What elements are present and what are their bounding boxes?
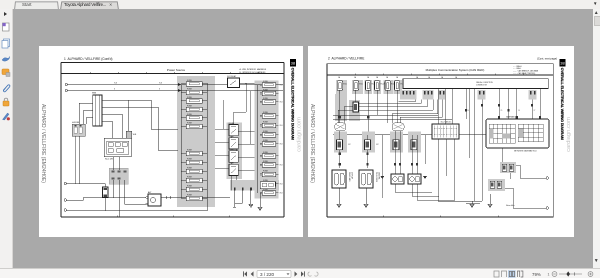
svg-text:OVERALL ELECTRICAL WIRING DIAG: OVERALL ELECTRICAL WIRING DIAGRAM	[291, 68, 295, 140]
gateway feeds	[465, 89, 467, 120]
svg-text:TELEVISION: TELEVISION	[375, 172, 377, 183]
junction block shading C	[255, 81, 279, 199]
wires loops to components	[340, 131, 425, 198]
svg-text:38: 38	[291, 61, 296, 66]
twisted pair T1	[335, 123, 346, 131]
sub junction J2	[353, 102, 359, 112]
svg-text:25: 25	[501, 110, 503, 112]
power source band	[61, 73, 284, 75]
ECU connector U6	[395, 81, 400, 91]
status bar	[0, 268, 600, 278]
bus connector pad M4	[529, 90, 537, 100]
svg-text:W-B: W-B	[280, 184, 283, 186]
svg-text:ECU: ECU	[343, 84, 347, 86]
svg-text:79%: 79%	[532, 272, 541, 277]
svg-text:FUSE: FUSE	[187, 114, 193, 116]
CAN main bus wire H	[333, 114, 438, 116]
svg-text:—— : CAN MAIN (TWISTED): —— : CAN MAIN (TWISTED)	[513, 72, 536, 75]
gateway pin grid 2	[518, 124, 543, 142]
svg-text:W-B: W-B	[280, 125, 283, 127]
svg-text:No.2 CAN J/C: No.2 CAN J/C	[441, 121, 452, 124]
junction connector J1 W/B	[93, 95, 102, 126]
relay R2	[229, 125, 238, 136]
ground G1	[249, 204, 253, 208]
fuse F1	[186, 82, 202, 87]
fuse C7	[262, 142, 276, 147]
fuse F11	[186, 187, 202, 192]
svg-text:cardiagn.com: cardiagn.com	[566, 117, 572, 152]
ECU connector U3	[366, 81, 371, 91]
svg-text:2 ALPHARD / VELLFIRE: 2 ALPHARD / VELLFIRE	[328, 57, 364, 61]
svg-text:24: 24	[467, 110, 469, 112]
ground W4	[488, 194, 492, 208]
svg-text:Multiplex Communication System: Multiplex Communication System (CAN RHD)	[426, 68, 485, 72]
relay R1 (shaded)	[72, 124, 85, 136]
svg-text:FUSE: FUSE	[187, 80, 193, 82]
svg-text:RELAY: RELAY	[229, 162, 235, 165]
wire labels	[114, 83, 162, 91]
svg-text:B: B	[114, 89, 115, 91]
ECU connector U5	[385, 81, 390, 91]
svg-text:FUSE: FUSE	[187, 122, 193, 124]
bus connector pad M2	[438, 90, 446, 100]
relay R5	[229, 164, 238, 175]
svg-text:W-B: W-B	[280, 144, 283, 146]
wire number labels	[338, 76, 458, 79]
svg-text:FUSE: FUSE	[187, 158, 193, 160]
svg-text:IG1 RELAY: IG1 RELAY	[227, 75, 237, 78]
svg-text:ALPHARD / VELLFIRE (EM24H0E): ALPHARD / VELLFIRE (EM24H0E)	[40, 104, 46, 183]
tab document (active)	[60, 1, 119, 10]
pin table feeds	[437, 89, 439, 125]
svg-text:FUSE: FUSE	[263, 98, 269, 100]
J/C connector JB	[365, 140, 371, 150]
fuse F12	[186, 196, 202, 201]
fuse C2	[262, 91, 276, 96]
wire gateway down	[502, 148, 504, 162]
J1 pins	[88, 100, 107, 121]
camera connector pad	[500, 162, 516, 173]
svg-text:26: 26	[518, 110, 520, 112]
sidebar panel	[0, 9, 13, 268]
component return wires	[395, 184, 454, 200]
svg-text:FUSE: FUSE	[263, 81, 269, 83]
svg-text:1: 1	[548, 272, 550, 276]
fuse block No.2 J/B	[104, 138, 131, 157]
CAN main bus wire L	[333, 118, 452, 120]
connector A1	[65, 83, 67, 85]
bus pins	[403, 91, 536, 94]
fuse C11	[262, 182, 276, 187]
svg-text:DISPLAY: DISPLAY	[351, 172, 354, 180]
svg-text:W-B: W-B	[280, 165, 283, 167]
svg-text:5A: 5A	[354, 76, 357, 79]
display unit M2	[359, 170, 373, 188]
svg-text:FUSE: FUSE	[263, 170, 269, 172]
grid ticks bottom	[383, 216, 498, 217]
svg-text:cardiagn.com: cardiagn.com	[297, 117, 303, 152]
svg-text:W-B: W-B	[159, 83, 162, 85]
svg-text:FUSE: FUSE	[263, 131, 269, 133]
connector C3	[64, 209, 66, 211]
svg-text:RELAY: RELAY	[229, 122, 235, 125]
svg-text:FUSE: FUSE	[263, 189, 269, 191]
sensor M3	[391, 174, 404, 184]
relay block wires	[215, 112, 255, 191]
svg-text:FUSE: FUSE	[187, 88, 193, 90]
svg-text:ALPHARD / VELLFIRE (EM24H0E): ALPHARD / VELLFIRE (EM24H0E)	[309, 104, 315, 183]
ECU connector U1	[337, 81, 342, 91]
svg-text:CAN No.1 JUNCTION: CAN No.1 JUNCTION	[476, 81, 493, 84]
svg-text:FUSE: FUSE	[187, 176, 193, 178]
wire ground drops	[233, 191, 251, 208]
band line	[327, 74, 553, 76]
svg-text:5A: 5A	[396, 76, 399, 79]
connector shading around J2	[349, 100, 360, 121]
CAN junction bus box	[403, 79, 548, 89]
svg-text:FUSE: FUSE	[187, 97, 193, 99]
wire arrow marks	[178, 83, 181, 86]
strip A right bus	[206, 83, 208, 198]
fuse F9	[186, 169, 202, 174]
nested elbow wires from bus J/B	[399, 100, 416, 102]
gateway ECU box	[486, 119, 549, 148]
relay R3	[229, 138, 238, 149]
wire fuse block down	[112, 157, 114, 171]
ECU connector pad 2	[352, 80, 363, 94]
svg-text:CONNECTOR: CONNECTOR	[476, 84, 488, 86]
ECU connector pad 5	[384, 80, 394, 94]
fuse C4	[262, 114, 276, 119]
fuse C1	[262, 83, 276, 88]
radio unit M1	[332, 170, 346, 188]
svg-text:FUSE: FUSE	[187, 105, 193, 107]
svg-text:A : W/B, INTERIOR HARNESS: A : W/B, INTERIOR HARNESS	[240, 68, 267, 71]
svg-text:B : INTERIOR, E/G HARNESS: B : INTERIOR, E/G HARNESS	[240, 71, 267, 74]
fuse F2	[186, 90, 202, 95]
bottom connector pins	[234, 188, 252, 191]
svg-text:FUSE: FUSE	[187, 149, 193, 151]
camera connector pad 2	[488, 179, 505, 191]
wire battery feed B	[68, 90, 284, 92]
svg-text:5A: 5A	[386, 76, 389, 79]
svg-text:W-B: W-B	[280, 85, 283, 87]
fuse F3	[186, 99, 202, 104]
svg-text:RELAY: RELAY	[229, 135, 235, 138]
ECU connector pad 4	[374, 80, 382, 94]
svg-text:W-B: W-B	[133, 134, 137, 136]
fusible link box FL2	[260, 182, 275, 189]
ECU connector U2	[353, 81, 358, 91]
svg-text:Noise filter: Noise filter	[506, 204, 515, 207]
svg-text:B: B	[159, 89, 160, 91]
bus connector pad M1	[423, 90, 434, 100]
fuse F5	[186, 116, 202, 121]
ignition relay R5	[228, 78, 240, 88]
strip A bus wire	[180, 85, 182, 199]
fuse C8	[262, 154, 276, 159]
branch marks	[380, 176, 384, 179]
svg-text:FUSE: FUSE	[263, 161, 269, 163]
J/C connector JC	[393, 140, 399, 150]
wire battery feed A	[68, 85, 284, 91]
svg-text:GATEWAY: GATEWAY	[506, 116, 515, 119]
fuse F7	[186, 151, 202, 156]
fuse F6	[186, 124, 202, 129]
ECU connector U4	[375, 81, 380, 91]
CAN bus lower wire	[333, 134, 486, 136]
wire R1 down	[79, 136, 81, 184]
svg-text:ECU: ECU	[359, 84, 363, 86]
wire gauge labels	[467, 110, 535, 112]
fuse F4	[186, 107, 202, 112]
connector C1	[64, 182, 66, 184]
relay block shading B	[227, 123, 243, 180]
vertical scrollbar	[593, 9, 600, 268]
section number box	[559, 59, 565, 67]
svg-text:RELAY: RELAY	[229, 148, 235, 151]
relay R4	[229, 151, 238, 162]
fuse C9	[262, 163, 276, 168]
fuse C3	[262, 100, 276, 105]
svg-text:H-FUSE: H-FUSE	[72, 122, 80, 124]
wire to fusible link FL1	[67, 183, 106, 185]
connector marks on drops	[339, 153, 418, 166]
gateway pin grid 1	[489, 124, 515, 143]
svg-text:FUSE: FUSE	[187, 194, 193, 196]
tab bar	[0, 0, 600, 9]
junction block shading A	[177, 76, 215, 207]
diagram frame	[61, 63, 284, 218]
fuse F8	[186, 160, 202, 165]
ECU connector pad 3	[365, 80, 373, 94]
svg-text:5A: 5A	[338, 76, 341, 79]
CAN J/C pin box	[432, 124, 459, 139]
alternator G1	[148, 194, 161, 206]
svg-text:FUSE: FUSE	[187, 167, 193, 169]
fuse F10	[186, 178, 202, 183]
ground G2	[258, 193, 262, 211]
wire C3	[67, 191, 208, 211]
svg-text:W/B: W/B	[92, 93, 97, 95]
svg-text:FUSE: FUSE	[263, 112, 269, 114]
sensor M4	[408, 174, 421, 184]
svg-text:W-B: W-B	[114, 83, 117, 85]
bus connector pad M3	[478, 90, 486, 100]
wire camera to pigtail	[516, 165, 546, 178]
J/C connector JD	[411, 140, 417, 150]
fusible link block shading	[230, 180, 279, 191]
fuse wire labels right	[280, 85, 283, 195]
connector C2	[64, 199, 66, 201]
wire R5 to strip C	[240, 83, 255, 85]
pin table drops	[437, 139, 439, 201]
connector B1	[65, 89, 67, 91]
bus drop wires	[338, 89, 540, 202]
svg-text:OVERALL ELECTRICAL WIRING DIAG: OVERALL ELECTRICAL WIRING DIAGRAM	[560, 68, 564, 140]
wiring diagram page 1	[39, 46, 303, 237]
twisted pair T2	[392, 123, 404, 131]
fusible link FL3 (shaded)	[126, 131, 132, 138]
svg-text:5A: 5A	[376, 76, 379, 79]
strip C left bus	[257, 85, 259, 194]
grid ticks bottom	[117, 216, 229, 217]
wire J1 to relay R1	[79, 103, 88, 124]
svg-text:ALT: ALT	[148, 191, 152, 194]
ground W1	[337, 188, 341, 208]
svg-text:W-B: W-B	[280, 102, 283, 104]
svg-text:FUSE: FUSE	[187, 185, 193, 187]
svg-text:38: 38	[560, 61, 565, 66]
svg-text:J/C: J/C	[348, 144, 351, 146]
ground W2	[364, 188, 368, 208]
svg-text:J/C: J/C	[376, 144, 379, 146]
wire mid verticals	[223, 84, 250, 145]
ECU connector pad 1	[336, 80, 347, 94]
svg-text:NETWORK GATEWAY ECU: NETWORK GATEWAY ECU	[514, 150, 537, 153]
svg-text:FUSE: FUSE	[263, 89, 269, 91]
wire pad2 to pigtail	[505, 188, 546, 208]
wire C2 to alternator	[67, 198, 147, 201]
fuse C5	[262, 123, 276, 128]
fuse C6	[262, 133, 276, 138]
section number box	[290, 59, 296, 67]
bus connector pad L	[400, 90, 417, 100]
svg-text:FUSE: FUSE	[263, 152, 269, 154]
svg-text:Power Source: Power Source	[167, 68, 186, 72]
wire alternator to block	[161, 197, 230, 199]
fuse C10	[262, 172, 276, 177]
fuse C12	[262, 191, 276, 196]
svg-text:FUSE: FUSE	[263, 140, 269, 142]
connector block under fuse block (shaded)	[109, 168, 128, 184]
fusible link FL1	[103, 187, 109, 198]
svg-text:FUSE: FUSE	[263, 121, 269, 123]
wires J1 to fuse block	[107, 100, 178, 150]
wire junction marks	[339, 104, 541, 119]
wiring diagram page 2	[308, 46, 574, 237]
svg-text:W-B: W-B	[280, 193, 283, 195]
svg-text:5A: 5A	[367, 76, 370, 79]
ground W3	[438, 201, 482, 208]
ECU connector pad 6	[394, 80, 403, 94]
J/C shading pads	[334, 132, 347, 153]
wire FL1 down	[104, 198, 106, 211]
svg-text:27: 27	[534, 110, 536, 112]
svg-text:CAMERA: CAMERA	[378, 172, 381, 180]
tab Start	[14, 1, 59, 10]
svg-text:No.2 J/B: No.2 J/B	[105, 159, 113, 161]
svg-text:1 ALPHARD / VELLFIRE (Cont'd): 1 ALPHARD / VELLFIRE (Cont'd)	[64, 57, 112, 61]
connector shading below U1	[335, 94, 347, 121]
J/C connector JA	[337, 140, 343, 150]
svg-text:3 / 220: 3 / 220	[260, 272, 274, 277]
svg-text:(Cont. next page): (Cont. next page)	[537, 57, 557, 61]
diagram frame	[327, 64, 553, 217]
